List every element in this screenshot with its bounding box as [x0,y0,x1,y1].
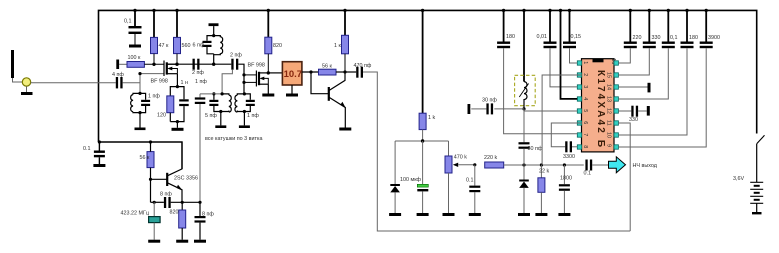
capacitor 1n (source bypass) [170,80,188,122]
capacitor 180 (top, to pin7) [497,10,577,133]
ground (battery) [752,212,762,214]
capacitor 330 (pin12) [618,106,646,123]
node gate1 [138,72,141,75]
ground (tank1) [135,128,146,131]
resistor 560 [174,10,191,64]
node filter out [309,70,312,73]
svg-text:BF 998: BF 998 [248,63,265,69]
wire tank1 to ground [139,113,141,128]
svg-text:3,6V: 3,6V [733,176,744,182]
antenna input node circle [22,78,30,86]
svg-text:1800: 1800 [560,176,572,182]
wire pin2 down to detector line [542,75,582,165]
svg-text:220 k: 220 k [484,155,497,161]
svg-text:56 к: 56 к [322,64,332,70]
capacitor 0.1 (osc supply) [83,142,105,164]
ground (tank 5pf) [215,125,226,128]
capacitor 0,1 (top-left decoupling) [124,10,142,44]
svg-text:0,01: 0,01 [537,34,548,40]
capacitor 2pf (second interstage) [230,53,244,94]
svg-text:14: 14 [606,84,612,90]
capacitor 6pf drain tank [193,36,214,54]
node gate1 Q2 [242,81,245,84]
inductor tank 1pf coil (2nd) [235,94,244,112]
node gate2 Q2 [242,73,245,76]
capacitor 470pf (IF out) [354,63,372,78]
svg-text:0.1: 0.1 [83,146,91,152]
inductor tank1 coil [131,93,140,112]
wire pin14 to shield bar [618,86,647,88]
svg-text:2: 2 [582,73,588,76]
wire tap from 2pf to 5pf tank [222,70,232,94]
capacitor 1pf injection coupling [195,79,208,203]
svg-text:1 н: 1 н [181,80,188,86]
resistor 820 (osc emitter) [170,202,186,239]
svg-text:8: 8 [582,145,588,148]
resistor 220k [484,155,584,168]
capacitor 30pf (quad input) [471,98,497,115]
svg-text:3300: 3300 [563,154,575,160]
node osc base [149,178,152,181]
wire top supply bus [99,10,757,142]
wire coil drop [523,10,525,81]
IC pin numbers left [582,61,588,148]
inductor detector coil [519,82,528,109]
terminal bar (drain tank top) [209,23,219,35]
svg-text:5: 5 [582,109,588,112]
node bus x135 [133,9,136,12]
wire gate1 riser [140,74,164,94]
svg-text:820: 820 [170,210,179,216]
wire coil bottom to pin5 [524,109,577,111]
wire RF amp drain line [167,63,232,65]
svg-text:470 k: 470 k [454,155,467,161]
capacitor 1800 [559,165,572,213]
capacitor 8pf (feedback) [160,192,200,209]
node tank1 top [138,92,141,95]
diode (AGC) [390,141,400,213]
detector coil shield box (dashed) [515,75,536,105]
node volume [473,163,476,166]
node gate2 bias x154 [152,63,155,66]
resistor 47k [151,10,169,64]
node collector [343,70,346,73]
filter 10,7 MHz [282,62,302,94]
svg-text:0.1: 0.1 [584,171,592,177]
node bus x268 [267,9,270,12]
resistor 56k (oscillator bias) [140,142,155,202]
svg-text:BF 998: BF 998 [151,79,168,85]
node tank2 top [243,92,246,95]
svg-text:13: 13 [606,96,612,102]
ground (100uF) [417,213,429,216]
svg-text:1 пф: 1 пф [195,79,207,85]
node AGC [421,139,424,142]
ground (diode) [389,213,401,216]
terminal bar (pin12 shield) [647,106,650,116]
capacitor 220 (top, to pin16) [618,10,641,63]
node drain tank bottom [212,62,215,65]
svg-text:0.1: 0.1 [466,178,474,184]
node detector x524 [522,163,525,166]
ground (8pf) [194,240,206,243]
wire source network [170,74,177,96]
svg-text:12: 12 [606,108,612,114]
capacitor 5pf tank [200,94,222,119]
svg-text:7: 7 [582,133,588,136]
node coil bottom [522,107,525,110]
svg-text:0,15: 0,15 [571,34,582,40]
node bus x422 [421,9,424,12]
wire filter out [302,71,327,73]
ground (antenna) [21,86,33,95]
wire mixer source to ground [267,84,269,93]
capacitor 3900 (top, to pin9) [618,10,720,147]
capacitor 30pf (below coil) [519,109,543,165]
node tank2 bottom [243,110,246,113]
node bus x345 [343,9,346,12]
crystal 423.22 MHz [121,202,161,239]
node osc supply corner [98,140,101,143]
node drain x177 [175,62,178,65]
IC pin numbers right [606,58,616,147]
capacitor 2pf (first interstage) [192,59,204,76]
svg-text:330: 330 [629,117,638,123]
svg-text:6: 6 [582,121,588,124]
wire oscillator emitter line [151,201,164,203]
svg-text:2SC 3356: 2SC 3356 [174,176,198,182]
node osc output [198,201,201,204]
ground (22k) [535,213,547,216]
potentiometer 470k [445,141,475,213]
ground (mixer source) [262,94,274,97]
resistor 820 (mixer drain load) [265,10,282,73]
switch [757,135,765,182]
capacitor 100uF electrolytic [400,141,428,213]
resistor 1k (AGC) [419,10,435,141]
svg-text:1 к: 1 к [334,43,341,49]
capacitor 0.1 (volume) [466,165,480,213]
svg-text:560: 560 [182,43,191,49]
resistor 22k [538,165,550,213]
node drain tank top [212,34,215,37]
svg-text:56 к: 56 к [140,155,150,161]
svg-text:180: 180 [689,35,698,41]
ground (crystal) [148,240,160,243]
ground (osc supply cap) [93,164,105,167]
ground (det diode) [518,213,530,216]
capacitor 0,1 (top, to pin13) [618,10,677,99]
node tank 5pf top [221,92,224,95]
svg-text:3: 3 [582,85,588,88]
wire 470pf to bottom bus [363,72,630,231]
arrow AF output [609,157,658,173]
IC K174XA42 body [582,59,615,152]
capacitor 1pf tank (2nd) [244,94,259,119]
svg-text:180: 180 [506,34,515,40]
wire base drop [311,72,329,94]
resistor 100k [127,55,164,67]
wire tank2 ground stem [243,112,245,126]
antenna [13,50,23,82]
svg-text:5 пф: 5 пф [205,113,217,119]
wire collector to cap [345,71,356,73]
svg-text:0,1: 0,1 [124,19,132,25]
capacitor 3300 [563,141,577,160]
wire pin6 to 3300 [551,123,581,147]
svg-text:423.22 МГц: 423.22 МГц [121,211,149,217]
resistor 56k (IF amp feedback) [319,64,346,76]
ground (top-left cap) [129,45,141,48]
capacitor 180 (top, to pin10) [618,10,698,135]
svg-text:820: 820 [273,43,282,49]
svg-text:НЧ выход: НЧ выход [633,163,658,169]
svg-text:22 k: 22 k [539,169,549,175]
transistor 2SC IF amp [329,72,346,128]
svg-text:4 пф: 4 пф [112,72,124,78]
wire to ground (source) [176,122,178,128]
svg-text:1 пф: 1 пф [247,113,259,119]
transistor 2SC3356 [167,142,198,202]
svg-text:9: 9 [606,144,612,147]
node 22k [540,163,543,166]
svg-text:330: 330 [652,35,661,41]
svg-text:30 пф: 30 пф [482,98,497,104]
node emitter junction [181,201,184,204]
capacitor 0.1 output [584,160,609,177]
svg-text:10.7: 10.7 [284,69,303,80]
battery 3,6V [733,176,763,212]
ground (osc emitter R) [176,240,188,243]
svg-text:11: 11 [606,120,612,126]
transistor BF998 (mixer) [244,63,268,87]
svg-text:100 к: 100 к [128,55,141,61]
svg-text:100 мкф: 100 мкф [400,177,422,183]
node mixer drain [267,71,270,74]
svg-text:2 пф: 2 пф [230,53,242,59]
inductor tank 5pf coil [221,94,231,112]
terminal bar (input trim) [116,60,127,70]
svg-text:1: 1 [582,61,588,64]
wire pin11 to bottom bus [618,123,630,231]
wire tank 5pf ground stem [220,112,222,126]
capacitor 8pf (emitter to gnd) [195,202,215,239]
svg-text:все катушки по 3 витка: все катушки по 3 витка [205,136,263,142]
svg-text:4: 4 [582,97,588,100]
resistor 1k (IF amp load) [334,10,349,72]
transistor BF998 (RF amp) [151,61,178,85]
IC pins right column [614,61,618,149]
svg-text:470 пф: 470 пф [354,63,372,69]
node tank 5pf on main line [212,92,215,95]
ground (IF amp emitter) [339,128,351,131]
terminal bar (pin14 shield) [648,83,651,93]
svg-text:0,1: 0,1 [670,35,678,41]
capacitor 0,01 (top, to pin3) [537,10,578,87]
node 1800 [563,163,566,166]
node tank1 bottom [138,111,141,114]
svg-text:120: 120 [157,113,166,119]
node bus x177 [175,9,178,12]
svg-text:47 к: 47 к [159,43,169,49]
svg-text:8 пф: 8 пф [202,212,214,218]
wire antenna to C 4pf [31,82,116,84]
ground (tank 1pf 2nd) [239,125,250,128]
wire AGC node line [395,140,448,142]
capacitor 1pf tank1 [140,93,160,112]
node bus x154 [152,9,155,12]
ground (1800) [558,213,570,216]
node osc supply [149,140,152,143]
ground (pot) [443,213,455,216]
svg-text:1 пф: 1 пф [148,94,160,100]
capacitor 4pf (antenna coupling) [112,72,140,88]
svg-text:8 пф: 8 пф [160,192,172,198]
capacitor 0,15 (top, to pin1) [563,10,581,63]
wire oscillator supply line [99,142,183,169]
capacitor 330 (top, to pin15) [618,10,660,75]
diode (detector) [519,165,529,213]
terminal bar (quad trim) [468,104,471,114]
svg-text:30 пф: 30 пф [528,146,543,152]
svg-text:2 пф: 2 пф [192,70,204,76]
svg-text:3900: 3900 [708,35,720,41]
svg-text:6 пф: 6 пф [193,43,205,49]
svg-text:1 k: 1 k [428,115,435,121]
ground (0.1 volume) [469,213,481,216]
inductor drain tank coil [214,36,223,65]
wire drain to filter [268,72,282,74]
wire Vcc to pin4 [561,10,578,99]
node crystal [153,201,156,204]
resistor 120 [157,96,174,122]
ground (filter) [286,94,298,97]
wire base lead [151,178,168,180]
IC pins left column [577,61,581,149]
node source split [176,85,179,88]
ground (source network) [172,128,184,131]
svg-text:220: 220 [633,35,642,41]
node tank 5pf bottom [219,110,222,113]
wire coil bottom left [494,108,524,110]
svg-text:15: 15 [606,72,612,78]
svg-text:10: 10 [606,132,612,138]
